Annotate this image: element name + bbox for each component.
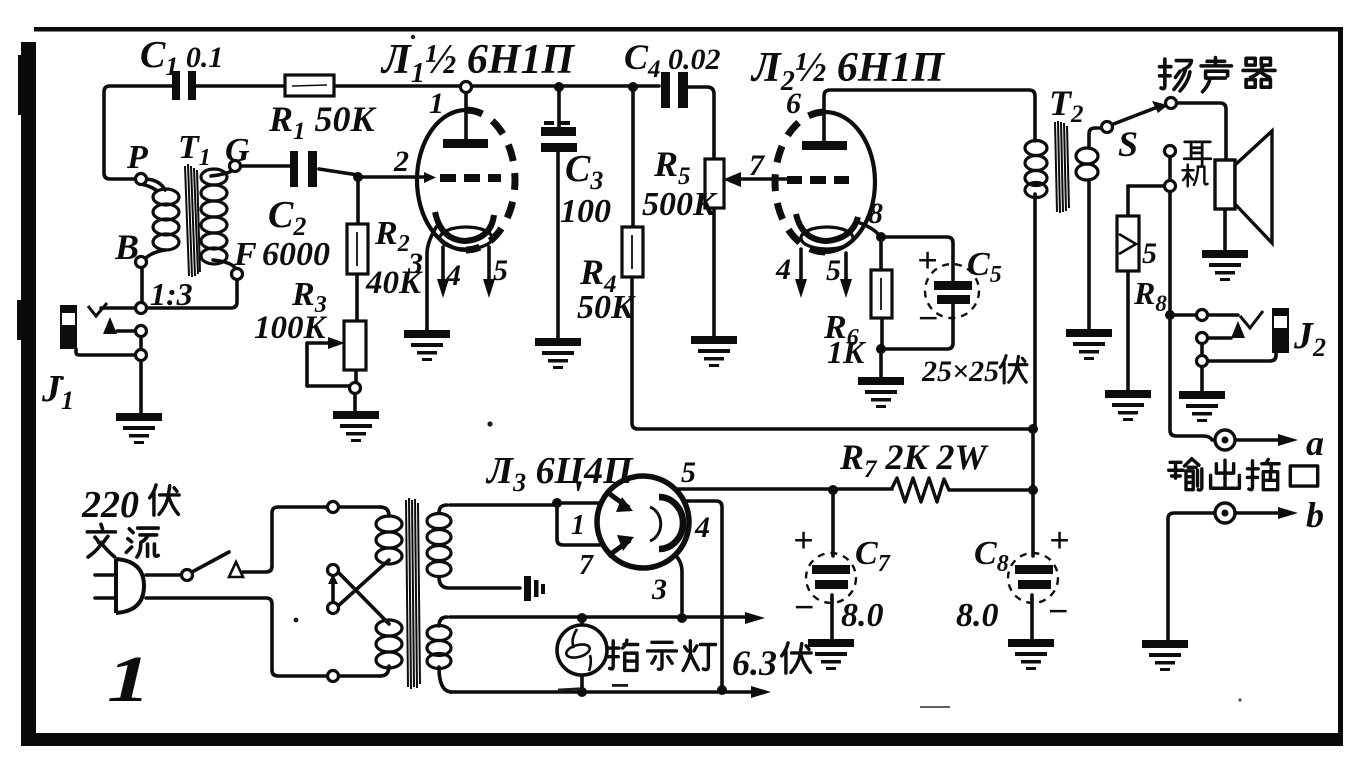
svg-text:R1 50K: R1 50K [268, 99, 378, 145]
svg-text:100: 100 [560, 193, 611, 230]
svg-text:5: 5 [1142, 237, 1157, 270]
svg-text:C7: C7 [855, 535, 891, 577]
svg-text:+: + [793, 520, 814, 560]
svg-text:5: 5 [826, 254, 841, 287]
svg-text:G: G [225, 132, 250, 169]
svg-text:C5: C5 [967, 246, 1002, 288]
svg-text:7: 7 [749, 149, 765, 182]
svg-text:S: S [1118, 124, 1138, 164]
svg-text:−: − [917, 298, 939, 338]
svg-text:8.0: 8.0 [956, 597, 999, 634]
svg-text:1K: 1K [827, 334, 867, 370]
svg-text:C8: C8 [974, 535, 1009, 577]
svg-text:−: − [793, 587, 815, 627]
svg-text:C4 0.02: C4 0.02 [624, 37, 721, 83]
svg-text:6000: 6000 [262, 236, 330, 273]
svg-text:2: 2 [393, 145, 409, 178]
svg-text:+: + [917, 240, 938, 280]
svg-text:100K: 100K [254, 310, 328, 346]
svg-text:J2: J2 [1293, 315, 1326, 362]
svg-text:+: + [1049, 520, 1070, 560]
svg-text:P: P [126, 139, 148, 176]
svg-text:Л2½ 6Н1П: Л2½ 6Н1П [750, 45, 945, 97]
svg-text:8.0: 8.0 [841, 597, 884, 634]
svg-text:C1 0.1: C1 0.1 [140, 34, 223, 81]
svg-text:6.3: 6.3 [732, 643, 777, 683]
svg-text:F: F [233, 236, 257, 273]
svg-text:4: 4 [694, 511, 710, 544]
svg-text:3: 3 [407, 247, 423, 280]
svg-text:Л3 6Ц4П: Л3 6Ц4П [485, 450, 634, 497]
svg-text:25×25: 25×25 [921, 355, 999, 388]
svg-text:b: b [1306, 495, 1324, 535]
svg-text:4: 4 [775, 253, 791, 286]
svg-text:50K: 50K [577, 289, 636, 326]
svg-text:1: 1 [571, 510, 585, 541]
svg-text:3: 3 [651, 573, 667, 606]
svg-text:6: 6 [786, 87, 801, 120]
svg-text:T2: T2 [1049, 83, 1084, 128]
svg-text:5: 5 [681, 456, 696, 489]
svg-text:B: B [114, 227, 139, 267]
svg-text:−: − [1047, 591, 1069, 631]
svg-text:7: 7 [579, 550, 594, 581]
svg-text:R2: R2 [374, 215, 410, 257]
svg-text:R7 2K 2W: R7 2K 2W [839, 437, 990, 483]
svg-text:1:3: 1:3 [150, 276, 193, 312]
svg-text:T1: T1 [178, 129, 211, 171]
svg-text:C2: C2 [268, 194, 306, 241]
svg-text:5: 5 [493, 254, 508, 287]
svg-text:1: 1 [107, 642, 151, 715]
svg-text:C3: C3 [565, 148, 603, 195]
svg-text:J1: J1 [41, 368, 74, 415]
svg-text:1: 1 [429, 87, 444, 120]
svg-text:500K: 500K [642, 186, 718, 223]
svg-text:Л1½ 6Н1П: Л1½ 6Н1П [380, 37, 575, 89]
svg-text:4: 4 [445, 259, 461, 292]
svg-text:220: 220 [81, 484, 139, 526]
svg-text:8: 8 [868, 197, 883, 230]
svg-text:R5: R5 [653, 144, 691, 190]
svg-text:R8: R8 [1133, 275, 1167, 316]
svg-text:a: a [1306, 423, 1324, 463]
